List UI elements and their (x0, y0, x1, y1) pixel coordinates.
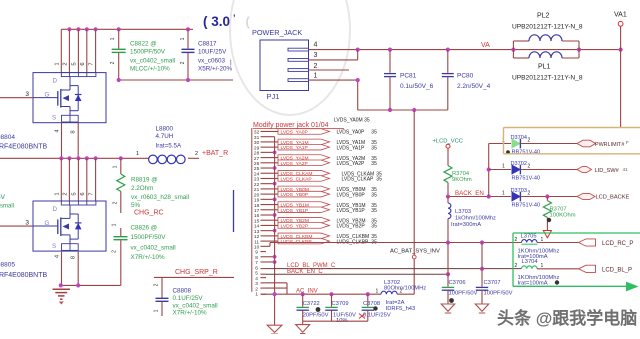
node LVDS pin 28 (254, 151, 266, 157)
svg-text:5: 5 (71, 62, 77, 65)
svg-text:LVDS_YA1P: LVDS_YA1P (281, 145, 308, 151)
svg-text:X5R/+/-20%: X5R/+/-20% (198, 66, 233, 73)
svg-text:7: 7 (89, 192, 95, 195)
svg-text:2: 2 (154, 283, 160, 286)
svg-text:10UF/25V: 10UF/25V (198, 49, 227, 56)
svg-text:31: 31 (254, 135, 260, 141)
svg-text:16: 16 (254, 213, 260, 219)
svg-text:2: 2 (528, 138, 531, 144)
svg-text:G: G (45, 92, 50, 99)
wire LVDS_CLKBM (266, 233, 377, 240)
ground C3707 (475, 304, 488, 313)
svg-text:Modify power jack 01/04: Modify power jack 01/04 (253, 122, 329, 129)
capacitor C8817 (180, 29, 233, 80)
resistor R8819 (113, 158, 190, 213)
svg-text:CHG_SRP_R: CHG_SRP_R (175, 269, 218, 276)
svg-text:L3705: L3705 (521, 234, 537, 240)
wire LVDS_YA1M (266, 139, 377, 146)
svg-text:2: 2 (180, 61, 186, 64)
capacitor C8808 (154, 277, 218, 316)
wire LCD_BL_PWM_C (266, 268, 522, 270)
svg-text:LVDS_YA0P: LVDS_YA0P (281, 129, 308, 135)
svg-text:6: 6 (80, 62, 86, 65)
svg-text:2: 2 (110, 61, 116, 64)
svg-text:VA1: VA1 (614, 12, 627, 19)
svg-text:C8822 @: C8822 @ (130, 41, 157, 48)
svg-text:5: 5 (71, 192, 77, 195)
wire gnd pin 16 (266, 213, 277, 217)
port PWRLIMIT# (577, 140, 629, 148)
wire LVDS_YB0P (266, 191, 377, 198)
arrow net down (543, 231, 551, 238)
svg-text:2: 2 (62, 62, 68, 65)
wire gnd pin 19 (266, 197, 277, 201)
ground C3706 (441, 304, 454, 313)
wire LVDS_YB1M (266, 202, 377, 209)
svg-text:AC_BAT_SYS_INV: AC_BAT_SYS_INV (390, 248, 440, 254)
svg-text:0.1UF/25V: 0.1UF/25V (173, 295, 204, 302)
svg-text:35: 35 (371, 224, 377, 230)
wire gnd pin 7 (266, 260, 277, 264)
label L3705 rating (518, 249, 560, 261)
svg-text:3: 3 (25, 91, 29, 98)
svg-text:25: 25 (254, 166, 260, 172)
svg-text:9: 9 (255, 250, 258, 256)
svg-text:LVDS_YA0P: LVDS_YA0P (337, 130, 366, 136)
wire LVDS_YB2P (266, 223, 377, 230)
wire gnd pin 13 (266, 229, 277, 233)
wire PJ1 pin 2 stub (309, 69, 350, 71)
svg-text:5V: 5V (0, 194, 6, 201)
diode D3702 (502, 161, 540, 182)
svg-text:LID_SW#: LID_SW# (595, 168, 620, 174)
svg-text:5%: 5% (131, 202, 141, 209)
transistor Q8805 (33, 201, 106, 251)
svg-text:2.2n/50V_4: 2.2n/50V_4 (457, 83, 491, 90)
capacitor C3706 (442, 243, 478, 305)
svg-text:22: 22 (254, 182, 260, 188)
node LVDS pin 8 (255, 255, 266, 261)
svg-text:100PF/50V: 100PF/50V (449, 291, 478, 297)
svg-text:5: 5 (255, 271, 258, 277)
svg-text:27: 27 (254, 156, 260, 162)
label C3722 (303, 301, 329, 318)
svg-text:C3722: C3722 (303, 301, 320, 307)
svg-text:C3707: C3707 (484, 280, 501, 286)
svg-text:15: 15 (254, 218, 260, 224)
svg-text:35: 35 (371, 208, 377, 214)
annotation green box (513, 233, 640, 291)
svg-text:30: 30 (254, 140, 260, 146)
wire Q8805 gate pin 3 (0, 220, 33, 227)
svg-text:small: small (0, 204, 14, 210)
svg-text:2: 2 (515, 263, 518, 269)
node LVDS pin 19 (254, 198, 266, 204)
node LVDS pin 7 (255, 260, 266, 266)
wire BACK_EN_C row 10 (266, 243, 522, 247)
node LVDS pin 12 (254, 234, 266, 240)
svg-text:PC81: PC81 (400, 73, 417, 80)
svg-text:2: 2 (528, 191, 531, 197)
svg-text:11: 11 (254, 239, 259, 245)
svg-text:PL1: PL1 (538, 64, 551, 71)
label 3.0V header (203, 13, 251, 29)
capacitor C3709 (325, 294, 337, 321)
svg-text:1: 1 (113, 165, 119, 168)
wire cap ground rail (303, 320, 368, 322)
svg-text:AC_INV: AC_INV (296, 288, 318, 294)
wire LVDS_YA0P (266, 129, 377, 136)
wire D3704 cathode (520, 143, 577, 145)
svg-text:3: 3 (25, 220, 29, 227)
wire LVDS_CLKAP (266, 176, 382, 183)
svg-text:2: 2 (195, 151, 198, 157)
svg-text:24: 24 (254, 171, 260, 177)
node LVDS pin 30 (254, 140, 266, 146)
svg-text:POWER_JACK: POWER_JACK (252, 28, 302, 37)
node LVDS pin 24 (254, 171, 266, 177)
svg-text:2: 2 (314, 63, 318, 70)
svg-text:1500PF/50V: 1500PF/50V (130, 49, 166, 56)
resistor R3707 (543, 197, 575, 231)
svg-text:8: 8 (71, 256, 77, 259)
svg-text:vx_c0402_small: vx_c0402_small (131, 245, 176, 252)
port LCD_BL_PWM (579, 265, 633, 273)
svg-text:( 3.0: ( 3.0 (203, 14, 230, 29)
wire Q8805 drain pins (54, 158, 95, 201)
node LVDS pin 10 (254, 245, 266, 251)
svg-text:1: 1 (376, 289, 379, 295)
node LVDS pin 15 (254, 218, 266, 224)
capacitor C8822 (110, 29, 175, 80)
wire D3702 anode (489, 169, 511, 171)
capacitor C3708 (362, 294, 374, 321)
wire PJ1 pin 3 (309, 50, 358, 60)
svg-text:LVDS_YA2P: LVDS_YA2P (337, 161, 366, 167)
svg-text:RB751V-40: RB751V-40 (512, 203, 541, 209)
svg-text:35: 35 (376, 177, 382, 183)
svg-text:4.7UH: 4.7UH (156, 133, 174, 140)
svg-text:D: D (53, 78, 58, 85)
svg-text:LVDS_CLKAP: LVDS_CLKAP (281, 176, 312, 182)
inductor L8800 (136, 126, 198, 164)
svg-text:100PF/50V: 100PF/50V (484, 291, 513, 297)
svg-text:D: D (53, 206, 58, 213)
label D3704 dot (506, 150, 510, 154)
port LCD_BACKEN (577, 193, 630, 200)
svg-text:LVDS_YB2P: LVDS_YB2P (281, 223, 309, 229)
svg-text:1: 1 (154, 309, 160, 312)
node LVDS pin 11 (254, 239, 266, 245)
svg-text:LVDS_YA0M 35: LVDS_YA0M 35 (334, 118, 370, 124)
svg-text:28: 28 (254, 151, 260, 157)
connector LVDS body edge (251, 128, 253, 292)
node LVDS pin 6 (255, 265, 266, 271)
inductor PL1 (512, 52, 583, 82)
svg-text:9KOhm: 9KOhm (452, 177, 472, 183)
wire diode bus (487, 144, 511, 197)
inductor L3703 (448, 197, 496, 243)
wire Q8804 drain pins 1,2,5,6,7 (54, 29, 95, 72)
svg-text:C8808: C8808 (173, 288, 192, 295)
svg-text:20PF/50V: 20PF/50V (303, 312, 329, 318)
svg-text:1: 1 (255, 292, 258, 298)
label L3702 rating (386, 300, 416, 312)
wire stray blue vertical (233, 190, 235, 232)
svg-text:X7R/+/-10%: X7R/+/-10% (131, 254, 166, 261)
svg-text:2: 2 (400, 289, 403, 295)
node VA1 (614, 12, 627, 50)
svg-text:LVDS_YB0P: LVDS_YB0P (337, 192, 366, 198)
node LVDS pin 13 (254, 229, 266, 235)
wire jack bottom rail (358, 108, 448, 112)
wire LVDS_YB0M (266, 186, 377, 193)
wire LVDS_YB2M (266, 217, 377, 224)
label C3708 (359, 301, 391, 319)
watermark circle (230, 0, 350, 115)
ground LVDS bus (267, 325, 282, 334)
wire AC_INV rail (261, 292, 381, 296)
diode D3703 (502, 188, 540, 209)
svg-text:1: 1 (314, 73, 318, 80)
resistor R3704 (444, 166, 472, 197)
label modify note (253, 122, 344, 129)
svg-text:35: 35 (371, 192, 377, 198)
svg-text:C3709: C3709 (332, 301, 349, 307)
capacitor C8826 (112, 223, 176, 285)
wire capacitor bottom rail (117, 78, 233, 82)
svg-text:3: 3 (314, 52, 318, 59)
inductor L3704 (515, 259, 579, 269)
svg-text:vx_c0603: vx_c0603 (198, 58, 225, 65)
label PJ1 pin numbers (314, 42, 318, 80)
node LVDS pin 18 (254, 203, 266, 209)
wire BACK_EN_C lower (266, 272, 450, 276)
svg-text:1: 1 (136, 151, 139, 157)
svg-text:2: 2 (62, 192, 68, 195)
port LCD_RC_PWM (579, 239, 634, 247)
svg-text:’: ’ (233, 13, 236, 23)
node LVDS pin 17 (254, 208, 266, 214)
connector PJ1 power jack (252, 28, 309, 101)
node LVDS pin 25 (254, 166, 266, 172)
node LVDS pin 14 (254, 224, 266, 230)
svg-text:80Ohm/100MHz: 80Ohm/100MHz (384, 286, 426, 292)
svg-text:LVDS_YA2P: LVDS_YA2P (281, 161, 308, 167)
wire LVDS_CLKAM (266, 170, 382, 177)
svg-text:LVDS_YA1P: LVDS_YA1P (337, 145, 366, 151)
svg-text:6: 6 (80, 192, 86, 195)
svg-text:32: 32 (254, 130, 260, 136)
wire LVDS_YA1P (266, 144, 377, 151)
wire gnd pin 8 (266, 255, 277, 259)
svg-text:Irat=5.5A: Irat=5.5A (156, 143, 183, 150)
svg-text:PC80: PC80 (457, 73, 474, 80)
svg-text:C3706: C3706 (449, 280, 466, 286)
svg-text:+BAT_R: +BAT_R (202, 150, 228, 157)
svg-text:0.1u/50V_6: 0.1u/50V_6 (400, 83, 434, 90)
svg-text:2: 2 (528, 164, 531, 170)
svg-text:4: 4 (314, 42, 318, 49)
svg-text:IDRF5_h43: IDRF5_h43 (386, 306, 416, 312)
svg-text:1: 1 (54, 192, 60, 195)
wire pin 2 to AC_INV (266, 287, 287, 289)
node LVDS pin 1 (255, 292, 266, 298)
wire gnd pin 22 (266, 182, 277, 186)
svg-text:IRF4E080BNTB: IRF4E080BNTB (0, 144, 48, 151)
svg-text:1: 1 (112, 223, 118, 226)
svg-text:1500PF/50V: 1500PF/50V (131, 234, 167, 241)
capacitor C3722 (297, 294, 309, 321)
ground AC_INV caps (296, 321, 310, 333)
label Q8804 refdes (0, 134, 48, 151)
svg-text:S: S (52, 243, 56, 250)
svg-text:4: 4 (255, 276, 258, 282)
svg-text:1: 1 (502, 190, 505, 196)
svg-text:2: 2 (113, 201, 119, 204)
svg-text:F: F (626, 140, 629, 145)
svg-text:Q8805: Q8805 (0, 262, 15, 269)
wire LVDS_CLKBP (266, 238, 377, 245)
wire Q8805 source pins 4,8 (55, 252, 79, 286)
wire ground rail (59, 283, 121, 287)
svg-text:IRF4E080BNTB: IRF4E080BNTB (0, 272, 48, 279)
svg-text:VA: VA (481, 42, 490, 49)
svg-text:L8800: L8800 (156, 126, 174, 133)
wire Q8804 gate pin 3 (0, 91, 33, 98)
wire ground bus vertical (274, 137, 276, 326)
wire BACK_EN (446, 194, 511, 198)
svg-text:PJ1: PJ1 (267, 92, 280, 101)
svg-text:LVDS_YB0P: LVDS_YB0P (281, 192, 309, 198)
svg-text:7: 7 (255, 260, 258, 266)
svg-text:LVDS_YB1P: LVDS_YB1P (337, 208, 366, 214)
svg-text:X7R/+/-10%: X7R/+/-10% (173, 310, 208, 317)
wire LVDS_YA2P (266, 160, 377, 167)
svg-text:2: 2 (112, 250, 118, 253)
svg-text:LCD_BL_P: LCD_BL_P (602, 268, 632, 274)
svg-text:MLCC/+/-10%: MLCC/+/-10% (130, 66, 170, 73)
svg-text:2: 2 (515, 237, 518, 243)
svg-text:100KOhm: 100KOhm (550, 213, 576, 219)
svg-text:R8819 @: R8819 @ (131, 177, 158, 184)
wire VA drop (620, 50, 622, 128)
svg-text:L3703: L3703 (455, 209, 471, 215)
svg-text:14: 14 (254, 224, 260, 230)
ground left (53, 289, 71, 304)
svg-text:L3704: L3704 (522, 259, 539, 265)
svg-text:21: 21 (254, 187, 260, 193)
svg-text:G: G (45, 220, 50, 227)
svg-text:Irat=300mA: Irat=300mA (451, 222, 481, 228)
inductor L3702 (376, 280, 427, 294)
annotation orange path (504, 128, 640, 154)
svg-text:vx_c0402_small: vx_c0402_small (173, 303, 218, 310)
wire LVDS_YB1P (266, 207, 377, 214)
node LVDS pin 20 (254, 192, 266, 198)
node LVDS pin 29 (254, 145, 266, 151)
inductor PL2 (512, 13, 583, 59)
svg-text:29: 29 (254, 145, 260, 151)
capacitor C3707 (476, 240, 513, 304)
svg-text:PL2: PL2 (537, 13, 550, 20)
svg-text:8: 8 (71, 130, 77, 133)
svg-text:Q8804: Q8804 (0, 134, 15, 141)
svg-text:RB751V-40: RB751V-40 (512, 150, 541, 156)
wire pin 3 to AC_INV (266, 283, 287, 294)
wire LVDS_YA2M (266, 155, 377, 162)
svg-text:UPB201212T-121Y-N_8: UPB201212T-121Y-N_8 (512, 75, 583, 82)
node LVDS pin 31 (254, 135, 266, 141)
svg-text:18: 18 (254, 203, 260, 209)
capacitor PC80 (442, 50, 491, 110)
wire AC_BAT_SYS_INV vertical (412, 110, 416, 294)
inductor L3705 (515, 234, 579, 245)
svg-text:1: 1 (180, 37, 186, 40)
node LVDS pin 5 (255, 271, 266, 277)
svg-text:C8826 @: C8826 @ (131, 225, 158, 232)
svg-text:2.2Ohm: 2.2Ohm (131, 185, 153, 192)
capacitor PC81 (384, 50, 434, 110)
svg-text:35: 35 (371, 161, 377, 167)
svg-text:头条 @跟我学电脑: 头条 @跟我学电脑 (497, 308, 637, 328)
svg-text:41: 41 (623, 167, 629, 172)
label L3704 rating (518, 275, 560, 287)
svg-text:13: 13 (254, 229, 260, 235)
svg-text:CHG_RC: CHG_RC (134, 210, 164, 217)
svg-text:26: 26 (254, 161, 260, 167)
svg-text:2: 2 (255, 286, 258, 292)
node LVDS pin 21 (254, 187, 266, 193)
transistor Q8804 (33, 73, 106, 123)
svg-text:1kOhm/100Mhz: 1kOhm/100Mhz (455, 216, 496, 222)
wire Q8804 source pins 4,8 (55, 123, 79, 159)
svg-text:19: 19 (254, 198, 260, 204)
svg-text:1: 1 (502, 163, 505, 169)
svg-text:RB751V-40: RB751V-40 (512, 176, 541, 182)
node LVDS pin 9 (255, 250, 266, 256)
label C3709 (332, 301, 357, 324)
wire D3703 cathode (520, 194, 577, 198)
svg-text:6: 6 (255, 265, 258, 271)
svg-text:1: 1 (110, 37, 116, 40)
svg-text:23: 23 (254, 177, 260, 183)
wire gnd pin 31 (266, 136, 275, 138)
node LVDS pin 16 (254, 213, 266, 219)
svg-text:vx_r0603_h28_small: vx_r0603_h28_small (131, 194, 189, 201)
node LVDS pin 23 (254, 177, 266, 183)
svg-text:8: 8 (255, 255, 258, 261)
svg-text:17: 17 (254, 208, 260, 214)
svg-text:vx_c0402_small: vx_c0402_small (130, 58, 175, 65)
label Q8805 refdes (0, 262, 48, 280)
svg-text:0.1UF/25V: 0.1UF/25V (363, 312, 391, 318)
node LVDS pin 32 (254, 130, 266, 136)
diode D3704 (502, 135, 540, 156)
port LID_SW# (577, 166, 628, 174)
node +LCD_VCC (433, 138, 463, 165)
svg-text:PWRLIMIT#: PWRLIMIT# (595, 142, 624, 148)
wire D3702 cathode (520, 169, 577, 171)
svg-text:LCD_RC_P: LCD_RC_P (602, 241, 633, 247)
node LVDS pin 27 (254, 156, 266, 162)
node LVDS pin 3 (255, 281, 266, 287)
wire VA rail from PJ1 pin 4 (309, 48, 623, 52)
svg-text:C8817: C8817 (198, 41, 217, 48)
svg-text:LVDS_YB1P: LVDS_YB1P (281, 208, 309, 214)
svg-text:S: S (52, 114, 56, 121)
svg-text:+LCD_VCC: +LCD_VCC (433, 138, 463, 144)
